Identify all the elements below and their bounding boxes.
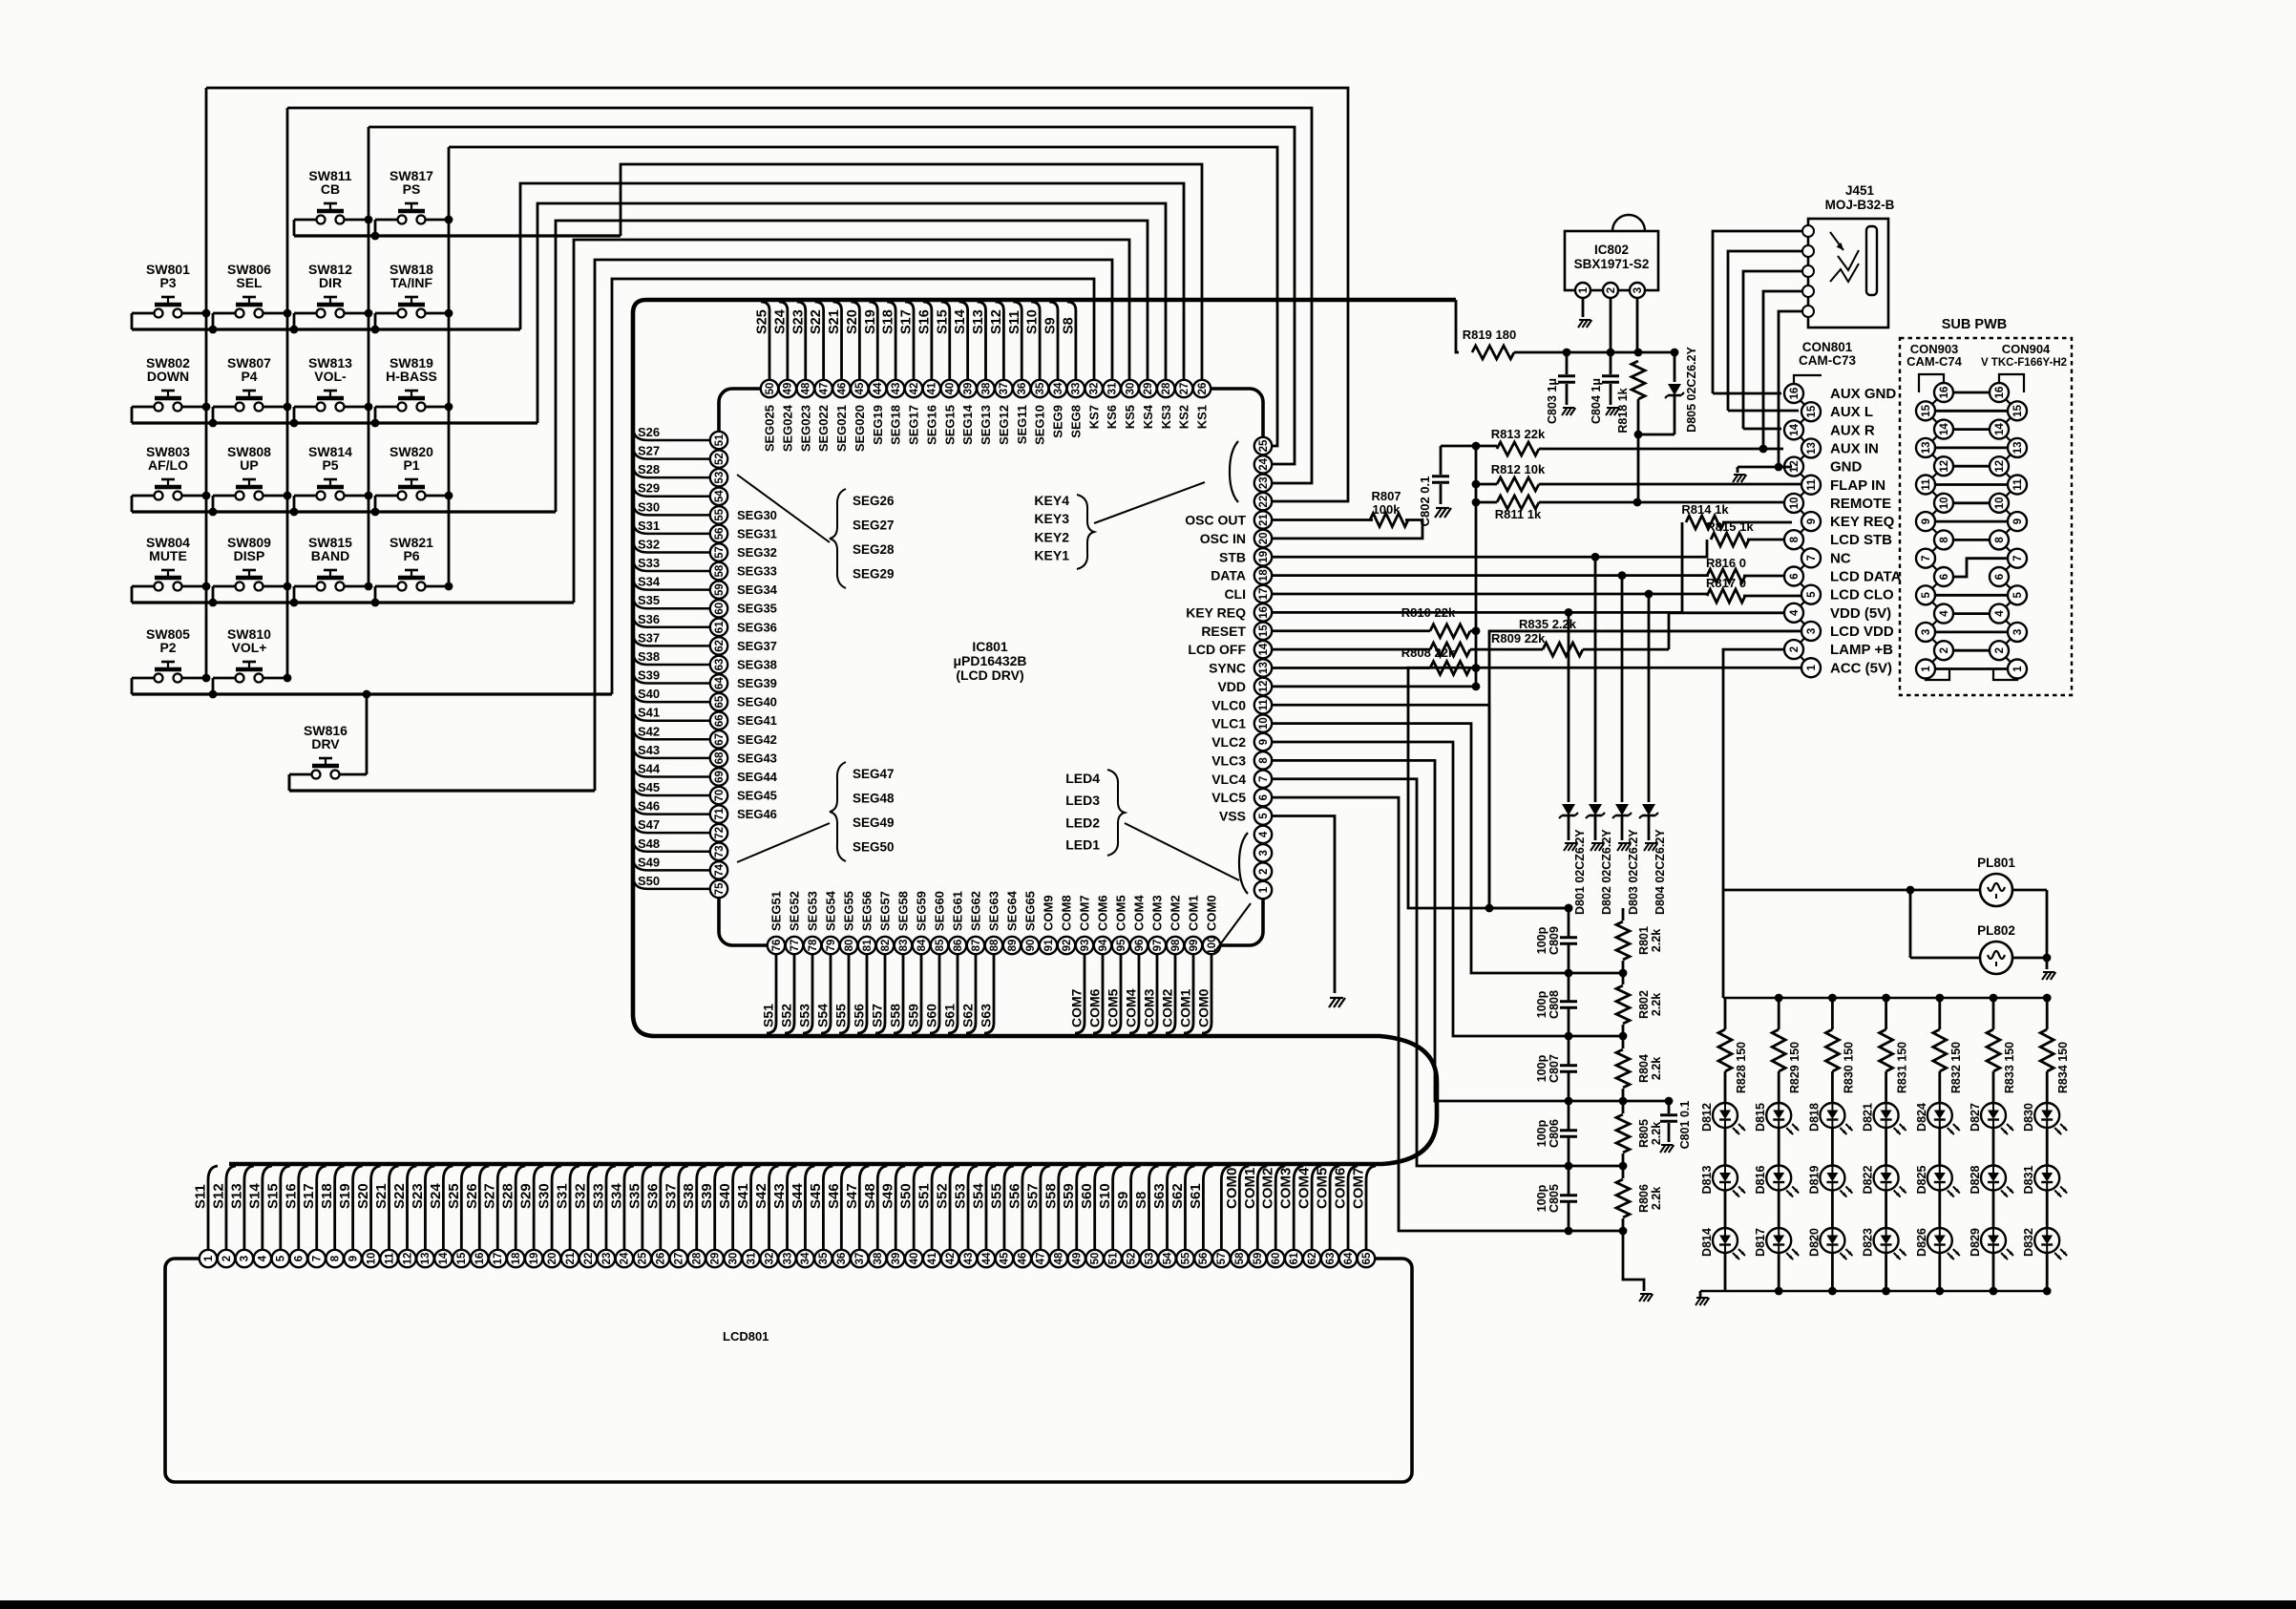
svg-text:S60: S60 (924, 1004, 939, 1027)
svg-text:S27: S27 (638, 444, 660, 458)
svg-text:S31: S31 (638, 519, 660, 533)
svg-text:62: 62 (1307, 1253, 1318, 1265)
LCD801 pin 55 (1176, 1250, 1193, 1267)
svg-text:P5: P5 (322, 457, 338, 473)
svg-text:4: 4 (1939, 610, 1950, 617)
svg-text:7: 7 (1258, 776, 1270, 782)
CON903 pin 3 (1916, 623, 1935, 642)
IC801 pin 97 (1148, 937, 1166, 954)
svg-text:COM0: COM0 (1224, 1168, 1240, 1209)
svg-text:95: 95 (1116, 939, 1127, 951)
IC801 pin 61 (710, 619, 727, 636)
svg-text:9: 9 (1806, 519, 1818, 524)
svg-text:67: 67 (714, 733, 726, 746)
svg-text:SEG023: SEG023 (798, 405, 812, 452)
LED D821 (1874, 1103, 1899, 1128)
ground at IC802 pin 1 (1582, 298, 1585, 317)
svg-text:TA/INF: TA/INF (390, 275, 433, 290)
J451 pin 2 (1802, 245, 1814, 257)
svg-text:S36: S36 (644, 1183, 661, 1209)
svg-text:D829: D829 (1969, 1228, 1982, 1257)
svg-text:D817: D817 (1754, 1228, 1767, 1257)
svg-text:BAND: BAND (311, 548, 349, 563)
svg-text:73: 73 (714, 845, 726, 857)
svg-text:SEG021: SEG021 (834, 405, 849, 452)
ladder rail wire 1289 (1569, 1230, 1623, 1233)
svg-text:SEG62: SEG62 (969, 891, 983, 931)
IC801 pin group label SEG47-SEG50 with brace (737, 823, 830, 862)
LCD801 pin 62 (1303, 1250, 1320, 1267)
svg-text:R802: R802 (1637, 990, 1651, 1019)
IC801 pin 98 (1167, 937, 1184, 954)
LCD801 pin 43 (959, 1250, 977, 1267)
svg-text:96: 96 (1134, 940, 1146, 952)
svg-text:LCD STB: LCD STB (1830, 532, 1892, 548)
svg-text:DRV: DRV (311, 736, 340, 752)
svg-text:C806: C806 (1548, 1119, 1561, 1148)
IC U1 IC801 body (719, 389, 1263, 945)
svg-text:S44: S44 (790, 1183, 806, 1209)
svg-text:36: 36 (1017, 383, 1028, 395)
svg-text:SEG53: SEG53 (806, 891, 820, 931)
wire KEY3 loop (switch column to IC801 pin 22) (369, 127, 1295, 464)
svg-text:16: 16 (1939, 387, 1950, 399)
svg-text:S21: S21 (827, 309, 842, 334)
IC801 pin 96 (1130, 937, 1148, 954)
svg-text:54: 54 (714, 490, 726, 502)
CON903 pin 16 (1934, 383, 1953, 402)
svg-text:26: 26 (1197, 383, 1209, 395)
LCD801 pin 50 (1085, 1250, 1103, 1267)
svg-text:69: 69 (714, 771, 726, 783)
svg-text:35: 35 (1035, 382, 1046, 394)
svg-text:LCD CLO: LCD CLO (1830, 587, 1894, 603)
LED D824 (1927, 1103, 1952, 1128)
LCD801 pin 26 (652, 1250, 669, 1267)
svg-text:15: 15 (2012, 404, 2024, 416)
LED D829 (1981, 1228, 2006, 1253)
resistor R808 22k on SYNC line (1272, 667, 1430, 669)
svg-text:AUX L: AUX L (1830, 404, 1873, 420)
svg-text:32: 32 (1089, 383, 1101, 395)
svg-text:KS5: KS5 (1123, 405, 1137, 429)
svg-text:46: 46 (836, 383, 848, 395)
svg-text:S63: S63 (979, 1004, 994, 1027)
svg-text:S59: S59 (1061, 1183, 1077, 1209)
svg-text:D832: D832 (2022, 1228, 2035, 1257)
svg-text:13: 13 (1806, 442, 1818, 455)
LCD801 pin 53 (1140, 1250, 1157, 1267)
svg-text:SEG49: SEG49 (853, 815, 895, 830)
resistor R829 150 (1775, 994, 1783, 1003)
svg-text:S15: S15 (935, 309, 950, 334)
IC801 pin 65 (710, 693, 727, 710)
IC801 pin 76 (768, 937, 785, 954)
svg-text:VSS: VSS (1219, 809, 1246, 824)
svg-text:D813: D813 (1700, 1166, 1714, 1195)
svg-text:COM4: COM4 (1132, 895, 1147, 931)
svg-text:GND: GND (1830, 459, 1863, 476)
LCD801 pin 16 (471, 1250, 488, 1267)
svg-text:SEG57: SEG57 (878, 891, 893, 931)
svg-text:SEG63: SEG63 (987, 891, 1001, 931)
svg-text:STB: STB (1219, 549, 1246, 564)
svg-text:S56: S56 (852, 1004, 867, 1027)
resistor R831 150 (1882, 994, 1890, 1003)
svg-text:65: 65 (1361, 1252, 1373, 1264)
svg-text:3: 3 (1806, 628, 1818, 634)
IC801 pin 49 (779, 380, 796, 397)
svg-text:S46: S46 (638, 799, 660, 814)
svg-text:58: 58 (1234, 1252, 1246, 1264)
svg-text:1: 1 (203, 1255, 215, 1261)
CON904 pin 4 (1990, 604, 2009, 624)
IC801 pin 26 (1193, 380, 1211, 397)
svg-text:S32: S32 (573, 1183, 589, 1209)
svg-text:S40: S40 (717, 1183, 733, 1209)
svg-text:D804 02CZ6.2Y: D804 02CZ6.2Y (1654, 829, 1667, 915)
svg-text:CON904: CON904 (2002, 342, 2051, 356)
wire KEY REQ to R814 (1272, 522, 1682, 612)
svg-text:S57: S57 (1024, 1183, 1041, 1209)
svg-text:19: 19 (529, 1253, 540, 1265)
svg-text:S59: S59 (906, 1004, 921, 1027)
svg-text:S38: S38 (638, 649, 660, 664)
IC801 pin 43 (887, 380, 904, 397)
svg-text:SEG9: SEG9 (1051, 405, 1065, 438)
LCD801 pin 5 (272, 1250, 289, 1267)
svg-text:R807: R807 (1371, 489, 1401, 503)
svg-text:SEG16: SEG16 (924, 405, 938, 445)
LCD801 pin 2 (218, 1250, 235, 1267)
svg-text:S43: S43 (771, 1183, 788, 1209)
svg-text:25: 25 (638, 1252, 649, 1264)
svg-text:53: 53 (714, 472, 726, 484)
svg-text:3: 3 (1258, 850, 1270, 856)
LCD801 pin 49 (1068, 1250, 1085, 1267)
svg-text:7: 7 (1921, 555, 1932, 561)
svg-text:CAM-C74: CAM-C74 (1906, 354, 1963, 369)
svg-text:1: 1 (1921, 666, 1932, 672)
svg-text:R814 1k: R814 1k (1681, 502, 1729, 517)
svg-text:S23: S23 (790, 309, 806, 334)
svg-text:70: 70 (714, 790, 726, 802)
svg-text:S11: S11 (1007, 310, 1022, 334)
LCD801 pin 10 (362, 1250, 379, 1267)
svg-text:SEG024: SEG024 (780, 404, 794, 452)
CON904 pin 9 (2008, 512, 2027, 531)
LCD801 pin 4 (254, 1250, 271, 1267)
svg-text:S10: S10 (1097, 1183, 1113, 1209)
svg-text:R810 22k: R810 22k (1401, 605, 1456, 620)
resistor R814 1k (1686, 516, 1724, 529)
IC801 pin 31 (1103, 380, 1120, 397)
svg-text:AF/LO: AF/LO (148, 457, 188, 473)
svg-text:COM2: COM2 (1260, 1168, 1276, 1209)
svg-text:66: 66 (714, 714, 726, 727)
svg-text:OSC IN: OSC IN (1200, 531, 1246, 546)
svg-text:S47: S47 (844, 1183, 860, 1209)
svg-text:D824: D824 (1915, 1103, 1928, 1132)
svg-text:SEG42: SEG42 (737, 732, 777, 747)
IC801 pin 38 (977, 380, 994, 397)
LED D827 (1981, 1103, 2006, 1128)
svg-text:S19: S19 (863, 309, 878, 334)
svg-text:KEY1: KEY1 (1034, 548, 1069, 563)
svg-text:PL802: PL802 (1977, 923, 2015, 938)
svg-text:DOWN: DOWN (147, 369, 189, 384)
LCD801 pin 32 (760, 1250, 777, 1267)
IC801 pin 14 (1254, 641, 1272, 658)
IC802 pin 3 (1630, 283, 1645, 298)
IC801 pin 4 (1254, 826, 1272, 843)
IC801 pin 56 (710, 525, 727, 542)
svg-text:2: 2 (221, 1256, 233, 1261)
switch matrix row wires (293, 220, 296, 236)
svg-text:S20: S20 (845, 309, 860, 334)
CON801 pin 4 VDD (5V) (1784, 603, 1803, 623)
svg-text:D802 02CZ6.2Y: D802 02CZ6.2Y (1600, 829, 1613, 915)
IC801 pin 93 (1076, 937, 1093, 954)
svg-text:S42: S42 (753, 1183, 769, 1209)
wire J451 pin 5 to CON801 (1779, 311, 1802, 467)
IC801 pin 3 (1254, 844, 1272, 861)
svg-text:S28: S28 (638, 462, 660, 476)
svg-text:64: 64 (714, 677, 726, 689)
CON903 pin 4 (1934, 604, 1953, 624)
capacitor C801 0.1 (1623, 1100, 1669, 1103)
IC801 pin 36 (1013, 380, 1030, 397)
wire VLC0 from IC801 pin 11 to ladder rail (1272, 705, 1569, 908)
svg-text:53: 53 (1144, 1253, 1155, 1265)
LCD801 pin 22 (579, 1250, 597, 1267)
LCD801 pin 52 (1122, 1250, 1139, 1267)
ladder rail wire 1019 (1569, 972, 1623, 975)
IC801 pin 59 (710, 581, 727, 598)
svg-text:S8: S8 (1061, 317, 1076, 334)
IC801 pin 16 (1254, 603, 1272, 621)
IC801 pin 57 (710, 543, 727, 561)
LCD801 pin 45 (996, 1250, 1013, 1267)
svg-text:5: 5 (1258, 813, 1270, 819)
CON903 pin 2 (1934, 641, 1953, 660)
svg-text:34: 34 (1053, 382, 1064, 394)
svg-text:MUTE: MUTE (149, 548, 187, 563)
zener diode D802 02CZ6.2Y (1594, 557, 1597, 802)
LED D831 (2034, 1166, 2059, 1191)
zener diode D803 02CZ6.2Y (1621, 576, 1624, 802)
svg-text:2.2k: 2.2k (1650, 993, 1663, 1016)
svg-text:78: 78 (808, 939, 819, 951)
svg-text:49: 49 (783, 383, 794, 395)
wire KEY2 loop (switch column to IC801 pin 22) (287, 108, 1312, 483)
IC801 pin 72 (710, 824, 727, 841)
J451 switch contacts (1830, 232, 1843, 250)
svg-text:VLC1: VLC1 (1211, 716, 1246, 731)
svg-text:63: 63 (1325, 1253, 1337, 1265)
wire IC802 pin 2 down (1610, 298, 1612, 352)
CON903 pin 10 (1934, 494, 1953, 513)
LCD801 pin 56 (1194, 1250, 1211, 1267)
svg-text:SEG020: SEG020 (853, 405, 867, 452)
CON903 zigzag spine (1926, 392, 1944, 669)
svg-text:37: 37 (999, 383, 1010, 395)
svg-text:S31: S31 (555, 1183, 571, 1209)
LED D818 (1820, 1103, 1844, 1128)
svg-text:DIR: DIR (319, 275, 342, 290)
svg-text:100p: 100p (1535, 1184, 1548, 1212)
IC801 pin 90 (1022, 937, 1039, 954)
svg-text:33: 33 (1071, 383, 1083, 395)
svg-text:25: 25 (1258, 439, 1270, 452)
svg-text:24: 24 (620, 1252, 631, 1264)
svg-text:S22: S22 (391, 1183, 408, 1209)
svg-text:SEG65: SEG65 (1023, 891, 1038, 931)
svg-text:S39: S39 (699, 1183, 715, 1209)
zener diode D804 02CZ6.2Y (1648, 594, 1651, 802)
svg-text:COM4: COM4 (1124, 988, 1139, 1027)
wire IC802 pin 3 down to R819 line (1636, 298, 1639, 352)
wire SW816 left lead (288, 774, 291, 791)
svg-text:23: 23 (1258, 476, 1270, 489)
svg-text:56: 56 (714, 528, 726, 540)
wires from LCD cable to LCD801 pins with labels S11..COM7 (208, 1166, 218, 1250)
svg-text:45: 45 (1000, 1252, 1011, 1264)
svg-text:13: 13 (2012, 442, 2024, 455)
svg-text:5: 5 (1921, 592, 1932, 599)
svg-text:D801 02CZ6.2Y: D801 02CZ6.2Y (1573, 829, 1587, 915)
svg-text:47: 47 (1036, 1253, 1047, 1265)
svg-text:S54: S54 (970, 1183, 986, 1209)
svg-text:S13: S13 (228, 1183, 244, 1209)
IC801 pin 81 (858, 937, 875, 954)
svg-text:SEG61: SEG61 (951, 891, 965, 931)
LCD801 pin 46 (1014, 1250, 1031, 1267)
svg-text:79: 79 (826, 940, 837, 952)
LCD801 pin 21 (561, 1250, 579, 1267)
svg-text:R829 150: R829 150 (1788, 1042, 1801, 1093)
svg-text:S16: S16 (283, 1183, 299, 1209)
svg-text:93: 93 (1080, 940, 1091, 952)
svg-text:S58: S58 (888, 1004, 903, 1027)
svg-text:C807: C807 (1548, 1054, 1561, 1083)
svg-text:44: 44 (981, 1252, 993, 1264)
IC801 pin 78 (804, 937, 821, 954)
svg-text:SEG8: SEG8 (1068, 405, 1083, 438)
IC801 pin 21 (1254, 511, 1272, 528)
svg-text:P1: P1 (403, 457, 419, 473)
svg-text:R806: R806 (1637, 1184, 1651, 1213)
CON801 pin 1 ACC (5V) (1801, 658, 1821, 677)
svg-text:SEG52: SEG52 (788, 891, 802, 931)
svg-text:R812 10k: R812 10k (1491, 462, 1546, 476)
svg-text:COM0: COM0 (1196, 988, 1211, 1027)
IC801 pin 9 (1254, 733, 1272, 751)
svg-text:SEG35: SEG35 (737, 602, 777, 616)
svg-text:D816: D816 (1754, 1166, 1767, 1195)
wire LAMP +B from CON801 pin 2 (1723, 649, 1784, 890)
svg-text:SEG27: SEG27 (853, 519, 895, 533)
wire KEY1 loop (switch column to IC801 pin 22) (206, 88, 1348, 501)
svg-text:38: 38 (980, 382, 992, 394)
svg-text:COM0: COM0 (1205, 895, 1219, 931)
svg-text:1: 1 (2012, 666, 2024, 672)
wire KS loop 5 (switch row to IC801 top pin) (574, 240, 1129, 603)
svg-text:S16: S16 (916, 309, 932, 334)
IC801 pin 95 (1112, 937, 1129, 954)
svg-text:29: 29 (1143, 383, 1154, 395)
svg-text:SEG55: SEG55 (842, 891, 856, 931)
svg-text:S18: S18 (881, 309, 896, 334)
IC801 pin 86 (949, 937, 966, 954)
svg-text:R834 150: R834 150 (2056, 1042, 2070, 1093)
LCD801 pin 48 (1050, 1250, 1067, 1267)
svg-text:10: 10 (366, 1253, 377, 1265)
svg-text:43: 43 (891, 383, 902, 395)
svg-text:VLC4: VLC4 (1211, 772, 1246, 787)
svg-text:84: 84 (916, 939, 928, 951)
IC801 pin 87 (967, 937, 984, 954)
svg-text:DISP: DISP (234, 548, 265, 563)
IC801 pin 34 (1049, 380, 1066, 397)
LCD801 pin 61 (1285, 1250, 1302, 1267)
svg-text:SEL: SEL (236, 275, 263, 290)
svg-text:S41: S41 (735, 1183, 751, 1209)
svg-text:47: 47 (818, 383, 830, 395)
J451 pin 4 (1802, 286, 1814, 297)
svg-text:1: 1 (1806, 664, 1818, 670)
CON801 pin 7 NC (1801, 548, 1821, 567)
svg-text:28: 28 (692, 1252, 704, 1264)
IC801 pin 53 (710, 469, 727, 486)
svg-text:S45: S45 (808, 1183, 824, 1209)
wire VDD 5V from CON801 pin 4 (1669, 613, 1784, 649)
svg-text:56: 56 (1198, 1253, 1210, 1265)
LED D832 (2034, 1228, 2059, 1253)
capacitor C806 100p (1568, 1101, 1570, 1130)
svg-text:2: 2 (1789, 646, 1801, 652)
svg-text:(LCD DRV): (LCD DRV) (956, 667, 1023, 683)
CON801 pin 13 AUX IN (1801, 438, 1821, 457)
svg-text:30: 30 (727, 1253, 739, 1265)
svg-text:LAMP +B: LAMP +B (1830, 642, 1893, 658)
svg-text:77: 77 (790, 940, 801, 952)
IC801 pin 55 (710, 506, 727, 523)
svg-text:C804 1μ: C804 1μ (1590, 378, 1603, 424)
svg-text:SEG19: SEG19 (871, 405, 885, 445)
svg-text:7: 7 (1806, 555, 1818, 561)
LCD801 pin 58 (1231, 1250, 1248, 1267)
IC801 pin 33 (1067, 380, 1085, 397)
svg-text:SEG46: SEG46 (737, 807, 777, 821)
wire J451 pin 2 to CON801 (1728, 251, 1802, 411)
svg-text:S53: S53 (953, 1183, 969, 1209)
wire KS loop 1 (switch row to IC801 top pin) (621, 164, 1202, 380)
LCD801 pin 14 (434, 1250, 452, 1267)
svg-text:2: 2 (1606, 287, 1617, 293)
LCD801 pin 40 (905, 1250, 922, 1267)
svg-text:SEG37: SEG37 (737, 639, 777, 653)
IC801 pin 71 (710, 805, 727, 822)
IC801 pin 54 (710, 488, 727, 505)
IC801 pin 8 (1254, 752, 1272, 769)
svg-text:SEG29: SEG29 (853, 567, 895, 582)
CON801 pin 2 LAMP +B (1784, 640, 1803, 659)
LED D815 (1766, 1103, 1791, 1128)
wire VDD line to rail (1272, 685, 1476, 688)
LED D817 (1766, 1228, 1791, 1253)
svg-text:IC801: IC801 (972, 639, 1008, 654)
